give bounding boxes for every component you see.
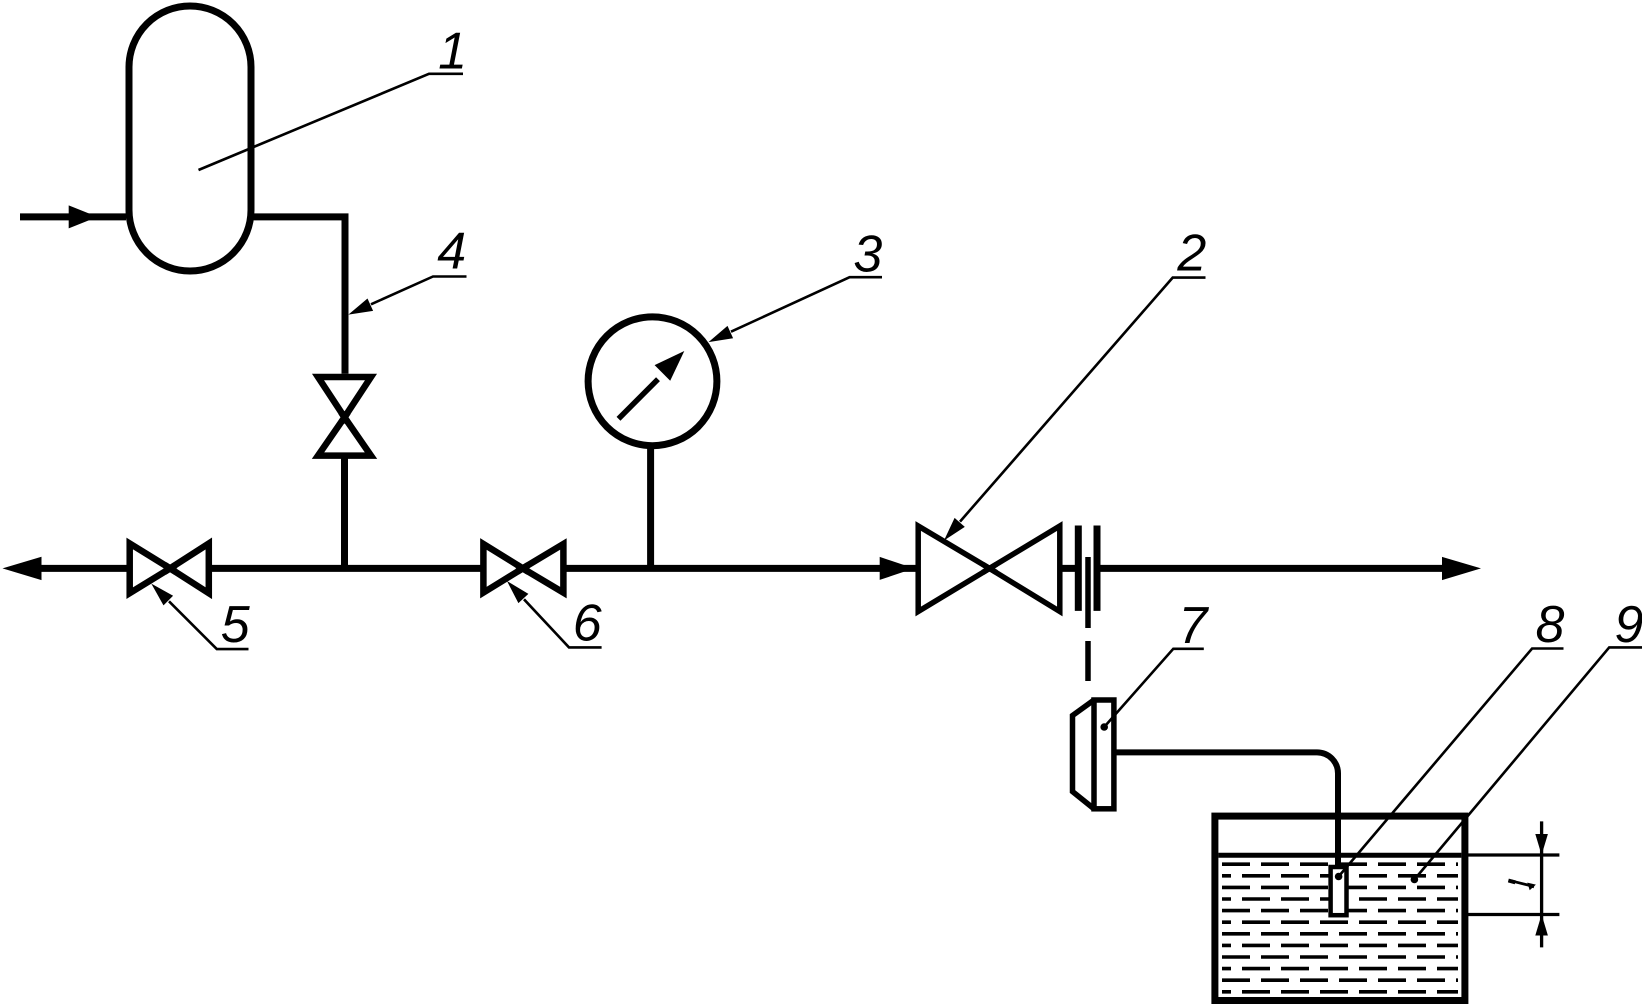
svg-text:5: 5 — [221, 596, 251, 654]
leader arrowhead at line 4 — [348, 299, 373, 315]
flange bar right — [1094, 526, 1101, 611]
wire: valve to main line — [341, 456, 348, 569]
leader arrowhead at valve 5 — [151, 584, 173, 606]
valve 2 — [918, 526, 996, 612]
gauge needle — [619, 379, 659, 419]
wire: main line left segment — [36, 565, 130, 572]
leader dot at tube 8 — [1335, 873, 1343, 881]
leader with shelf for label 1 — [169, 74, 1642, 880]
dimension arrow bottom — [1535, 915, 1548, 936]
leader with shelf for label 5 — [169, 601, 249, 649]
leader with shelf for label 6 — [524, 599, 602, 647]
dimension line — [1540, 821, 1543, 947]
wire: gauge stem — [647, 446, 654, 568]
wire: main line between valve 6 and valve 2 — [563, 565, 916, 572]
leader arrowhead at valve 2 — [944, 518, 965, 541]
svg-text:4: 4 — [437, 223, 466, 281]
leader with shelf for label 8 — [1339, 649, 1564, 877]
wire: main line between valve 5 and valve 6 — [209, 565, 484, 572]
svg-text:2: 2 — [1176, 225, 1206, 283]
dashed connection stub — [1085, 641, 1091, 681]
dimension label l (rotated italic l) — [1511, 881, 1534, 887]
flow arrow into vessel — [69, 205, 98, 228]
dimension arrow top — [1535, 834, 1548, 855]
svg-text:9: 9 — [1615, 596, 1642, 654]
leader with shelf for label 9 — [1414, 647, 1642, 879]
leader dot in liquid 9 — [1411, 876, 1419, 884]
leader with shelf for label 2 — [960, 278, 1206, 522]
tube 8 in tank — [1331, 867, 1347, 915]
svg-text:1: 1 — [438, 23, 467, 81]
svg-text:8: 8 — [1536, 596, 1565, 654]
flow arrow before valve 2 — [880, 557, 914, 580]
valve on line 4 (vertical bowtie) — [318, 377, 371, 422]
blind stem between flanges — [1085, 557, 1091, 628]
svg-text:6: 6 — [573, 595, 602, 653]
leader with shelf for label 4 — [371, 277, 467, 305]
leader with shelf for label 3 — [731, 277, 882, 332]
vessel 1 (receiver capsule) — [129, 6, 251, 271]
svg-text:3: 3 — [853, 226, 882, 284]
wire: valve 2 to flange — [1060, 565, 1076, 572]
liquid surface — [1218, 853, 1461, 858]
nozzle 7 — [1073, 700, 1095, 809]
valve 6 — [483, 544, 528, 593]
valve 5 — [130, 544, 176, 594]
svg-text:7: 7 — [1179, 597, 1210, 655]
flow arrow right end — [1442, 557, 1481, 580]
leader with shelf for label 7 — [1104, 649, 1204, 727]
pressure gauge 3 — [588, 317, 717, 446]
wire: main line right segment — [1100, 565, 1444, 572]
leader arrowhead at valve 6 — [507, 581, 528, 603]
leader arrowhead at gauge 3 — [709, 326, 734, 342]
wire: vessel outlet, line 4 (horizontal then vertical drop) — [251, 217, 345, 374]
wire: inlet line into vessel — [20, 213, 126, 220]
hose from nozzle 7 to tube 8 — [1114, 752, 1338, 869]
leader dot at nozzle 7 — [1100, 723, 1108, 731]
flow arrow left end — [3, 557, 42, 580]
dimension l extension lines — [1462, 821, 1559, 947]
liquid hatching — [1222, 864, 1458, 992]
tank 9 outline — [1215, 816, 1465, 1000]
flange bar left — [1075, 526, 1082, 611]
